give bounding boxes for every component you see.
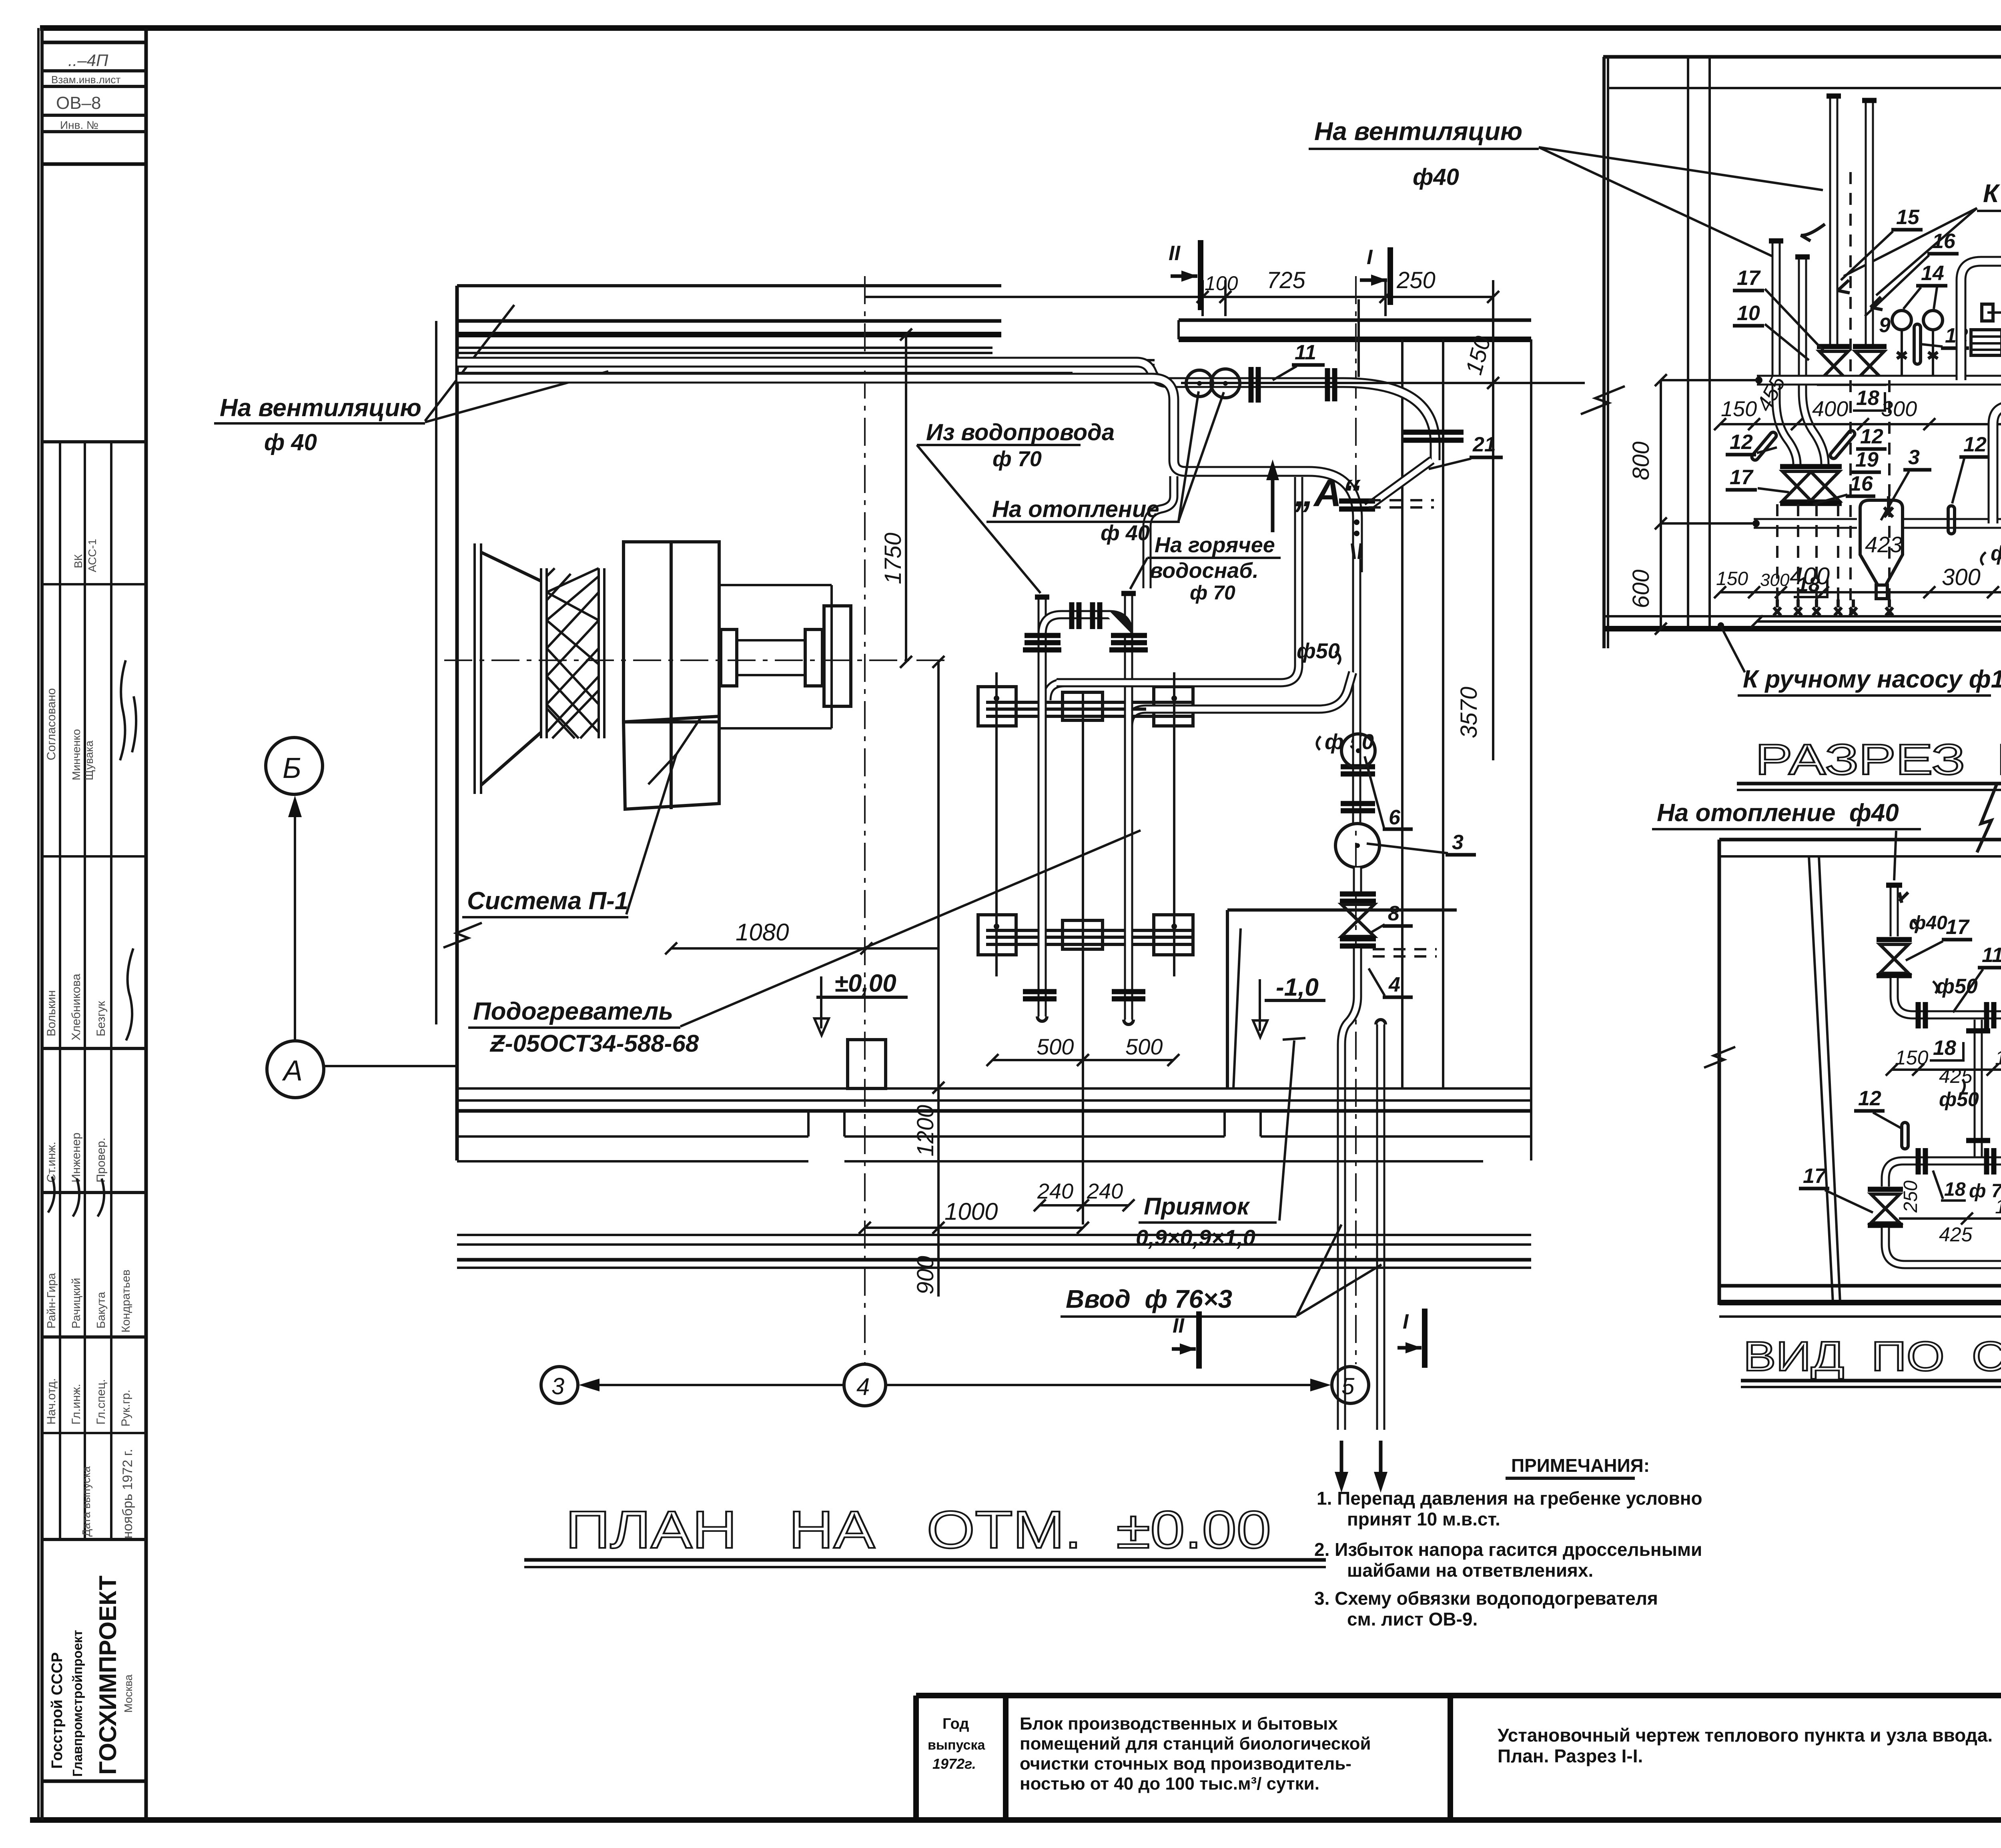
riser between	[1341, 801, 1375, 806]
view A ceiling double line	[1719, 838, 2001, 842]
axis arrow A to B	[294, 800, 296, 1040]
svg-text:ностью от 40 до 100 тыс.м³/ су: ностью от 40 до 100 тыс.м³/ сутки.	[1020, 1774, 1319, 1794]
label A arrow	[1271, 467, 1275, 532]
svg-text:423: 423	[1865, 532, 1902, 557]
pipe elbow bottom	[1885, 1228, 2001, 1265]
left vertical dims 800 600	[1660, 380, 1662, 629]
lower left valves pair	[1780, 464, 1814, 469]
svg-text:Безгук: Безгук	[94, 1001, 108, 1036]
section mark I top	[1387, 247, 1393, 305]
heater axis centerline	[1082, 692, 1084, 1225]
thermometer gauges 14 on upper manifold	[1892, 311, 1911, 330]
dim row 2 view	[1899, 1217, 2001, 1220]
sheet outer left line	[37, 28, 40, 1820]
svg-text:Бакута: Бакута	[95, 1291, 108, 1329]
fan inlet cone	[481, 552, 541, 581]
dim line 100-725-250	[864, 296, 1493, 298]
floor band top lines	[457, 1087, 1531, 1090]
arrows under vvod pipes	[1340, 1441, 1343, 1485]
svg-text:ф 70: ф 70	[992, 447, 1042, 471]
svg-text:12: 12	[1730, 431, 1753, 454]
gauge assembly: line, box, grid box, circle	[1987, 311, 2001, 314]
jumper bridge between pipe tops	[1042, 615, 1129, 634]
svg-text:17: 17	[1730, 466, 1754, 489]
pit priyamok outline	[1227, 908, 1457, 912]
svg-text:ф50: ф50	[1939, 1088, 1979, 1110]
section left outer wall pair	[1602, 57, 1606, 648]
svg-text:Главпромстройпроект: Главпромстройпроект	[70, 1630, 85, 1777]
column axis 5 / pipe axis	[1355, 276, 1357, 1364]
svg-text:4: 4	[1388, 973, 1400, 996]
svg-text:шайбами на ответвлениях.: шайбами на ответвлениях.	[1347, 1560, 1593, 1581]
svg-text:2. Избыток напора гасится дрос: 2. Избыток напора гасится дроссельными	[1314, 1539, 1702, 1560]
svg-text:Блок производственных и бытовы: Блок производственных и бытовых	[1020, 1714, 1338, 1734]
leaders into fan	[648, 754, 676, 784]
floor blocks row	[457, 1135, 808, 1138]
svg-text:Райн-Гира: Райн-Гира	[45, 1273, 58, 1329]
svg-text:4: 4	[856, 1373, 870, 1400]
svg-text:17: 17	[1946, 916, 1970, 939]
dashed centerlines under valves	[1849, 172, 1852, 616]
svg-text:10: 10	[1737, 302, 1760, 325]
dim 500 500	[992, 1059, 1173, 1061]
svg-text:9: 9	[1879, 314, 1891, 337]
svg-text:Согласовано: Согласовано	[45, 688, 58, 760]
svg-text:очистки сточных вод производит: очистки сточных вод производитель-	[1020, 1754, 1351, 1774]
title block dividers	[1003, 1696, 1009, 1820]
label K ruchnomu nasosu	[1718, 622, 1724, 629]
riser D tall	[1865, 99, 1874, 344]
floor lower lines	[457, 1160, 808, 1163]
flex connector frame lines	[540, 568, 542, 738]
axis circle 3	[541, 1367, 578, 1403]
thermo well 12	[1902, 1122, 1908, 1149]
svg-text:150: 150	[1721, 397, 1757, 421]
svg-text:Провер.: Провер.	[94, 1138, 108, 1183]
svg-text:1972г.: 1972г.	[932, 1756, 976, 1772]
wall top-right band	[1179, 319, 1531, 322]
svg-text:240: 240	[1087, 1179, 1123, 1203]
svg-text:5: 5	[1341, 1373, 1355, 1399]
svg-text:150: 150	[1995, 1046, 2001, 1069]
riser flanges below elbow	[1404, 430, 1464, 435]
svg-text:„А“: „А“	[1294, 472, 1361, 515]
vvod pipe R	[1376, 1024, 1385, 1430]
svg-text:18: 18	[1856, 387, 1879, 410]
bridge flange bars	[1069, 602, 1075, 629]
floor line section	[1604, 626, 2001, 631]
svg-text:12: 12	[1858, 1087, 1881, 1110]
svg-text:150: 150	[1995, 1195, 2001, 1218]
svg-text:21: 21	[1472, 433, 1496, 456]
ceiling break squiggle	[1977, 784, 1997, 852]
ceiling line 1	[1603, 55, 2001, 59]
svg-text:Ст.инж.: Ст.инж.	[45, 1142, 58, 1183]
section mark I bottom	[1422, 1309, 1428, 1368]
svg-text:ф 40: ф 40	[1101, 521, 1150, 545]
svg-text:12: 12	[1963, 433, 1987, 456]
top border	[40, 25, 2001, 31]
svg-text:Ƶ-05ОСТ34-588-68: Ƶ-05ОСТ34-588-68	[489, 1030, 699, 1057]
section inner wall pair	[1687, 57, 1689, 626]
axis circle 5	[1332, 1367, 1369, 1403]
svg-text:ноябрь 1972 г.: ноябрь 1972 г.	[120, 1449, 135, 1539]
svg-text:12: 12	[1860, 425, 1883, 448]
motor bracket top line	[719, 584, 832, 586]
svg-text:РАЗРЕЗ I-I: РАЗРЕЗ I-I	[1755, 735, 2001, 784]
svg-text:ф50: ф50	[1991, 542, 2001, 565]
svg-text:Госстрой СССР: Госстрой СССР	[49, 1652, 66, 1769]
dashed branch right	[1369, 499, 1434, 501]
pipe elbow to horizontal 1	[1894, 978, 2001, 1015]
thermo well 12 upper	[1914, 324, 1921, 364]
lower valve	[1868, 1187, 1903, 1192]
wall break mark left	[1581, 386, 1625, 414]
dim row 2 (600 level)	[1720, 591, 2001, 593]
svg-text:425: 425	[1939, 1065, 1973, 1087]
dim 240 240	[1040, 1204, 1129, 1207]
lower loop pipe	[1993, 406, 2001, 523]
flange pair at 3126	[1249, 367, 1254, 403]
flange pair at 3317	[1325, 368, 1330, 401]
svg-text:Москва: Москва	[122, 1674, 134, 1713]
tee down connector	[1974, 1020, 1983, 1157]
thermo well 12 mid	[1948, 506, 1955, 534]
k-arrows into risers	[1838, 280, 1850, 293]
svg-text:На вентиляцию: На вентиляцию	[220, 394, 421, 422]
upper P-loop pipe	[1961, 261, 2001, 380]
svg-text:300: 300	[1881, 397, 1917, 421]
svg-text:3570: 3570	[1456, 687, 1482, 738]
pump circle 2	[1211, 369, 1240, 398]
middle horizontal pipe 2	[1885, 1161, 2001, 1187]
heater support bracket row 1	[978, 687, 1193, 726]
svg-text:ВК: ВК	[72, 554, 84, 568]
pipe flange bars	[1025, 633, 1061, 638]
ceiling line 2	[1607, 87, 2001, 89]
fan centerline	[444, 659, 948, 661]
svg-text:Щувака: Щувака	[83, 740, 95, 780]
svg-text:ф 50: ф 50	[1325, 730, 1374, 754]
svg-text:На отопление: На отопление	[992, 496, 1159, 522]
svg-text:250: 250	[1396, 267, 1436, 293]
svg-text:АСС-1: АСС-1	[86, 539, 98, 572]
svg-text:1. Перепад давления на гребенк: 1. Перепад давления на гребенке условно	[1317, 1488, 1702, 1509]
fan inlet flange double line	[473, 543, 476, 794]
column axis 4	[864, 276, 866, 1364]
svg-text:Взам.инв.лист: Взам.инв.лист	[51, 74, 120, 86]
svg-text:250: 250	[1900, 1181, 1921, 1213]
heater pipe 2	[1124, 595, 1133, 1020]
svg-text:Кондратьев: Кондратьев	[120, 1269, 132, 1333]
svg-text:3. Схему обвязки водоподогрева: 3. Схему обвязки водоподогревателя	[1314, 1588, 1658, 1609]
heater pipe 1	[1038, 599, 1047, 1016]
svg-text:17: 17	[1737, 267, 1761, 290]
dim 3570	[1757, 620, 2001, 623]
break mark on left dim	[1704, 1047, 1735, 1068]
title block outer	[916, 1693, 2001, 1698]
svg-text:ВИД ПО СТРЕЛКЕ„А“: ВИД ПО СТРЕЛКЕ„А“	[1743, 1333, 2001, 1380]
svg-text:150: 150	[1895, 1046, 1929, 1069]
flex connector crosshatch	[547, 568, 599, 738]
svg-text:..–4П: ..–4П	[68, 51, 108, 70]
long riser down to valves	[1352, 559, 1361, 720]
svg-text:Инв. №: Инв. №	[60, 119, 98, 131]
svg-text:На горячее: На горячее	[1155, 533, 1275, 557]
riser B	[1803, 256, 1825, 464]
svg-text:11: 11	[1295, 341, 1316, 364]
svg-text:ГОСХИМПРОЕКТ: ГОСХИМПРОЕКТ	[94, 1575, 121, 1775]
svg-text:ф 70: ф 70	[1190, 581, 1235, 604]
heater pipes redrawn over brackets	[1038, 680, 1047, 976]
svg-text:ф40: ф40	[1413, 164, 1459, 190]
svg-text:ПРИМЕЧАНИЯ:: ПРИМЕЧАНИЯ:	[1511, 1455, 1650, 1476]
right wall verticals	[1401, 339, 1404, 1088]
svg-text:8: 8	[1388, 902, 1399, 925]
svg-text:300: 300	[1942, 564, 1981, 590]
drain row under manifold	[1774, 599, 1893, 615]
flanges on pipe1	[1916, 1002, 1921, 1028]
centerline through circles	[1181, 382, 1583, 384]
svg-text:15: 15	[1896, 206, 1920, 229]
left wall vertical	[1718, 840, 1721, 1305]
svg-text:3: 3	[1452, 831, 1464, 854]
lower manifold	[1754, 518, 1857, 529]
main valve circle upper	[1352, 720, 1361, 824]
svg-text:На вентиляцию: На вентиляцию	[1314, 117, 1522, 146]
svg-text:Рук.гр.: Рук.гр.	[119, 1390, 132, 1427]
svg-text:3: 3	[551, 1373, 564, 1399]
svg-text:-1,0: -1,0	[1276, 974, 1319, 1001]
svg-text:1750: 1750	[880, 533, 906, 584]
pipe B2 down from bundle, branch to heater pipe2	[457, 378, 1357, 572]
svg-text:Год: Год	[942, 1716, 969, 1732]
svg-text:19: 19	[1855, 448, 1879, 471]
svg-text:16: 16	[1850, 472, 1873, 495]
dim 150 vertical right	[1492, 280, 1494, 760]
svg-text:500: 500	[1037, 1034, 1074, 1059]
axis arrows 4->3 and 4->5	[587, 1384, 844, 1386]
svg-text:Ввод ф 76×3: Ввод ф 76×3	[1066, 1285, 1232, 1313]
leader lines to bundle	[425, 305, 514, 421]
valve top	[1877, 937, 1912, 942]
taper from upper riser to lower axis	[1367, 460, 1432, 507]
section mark II top	[1198, 240, 1203, 310]
H2 branch from heater pipe2	[1129, 672, 1353, 726]
svg-text:ф50: ф50	[1297, 639, 1340, 663]
svg-text:Из водопровода: Из водопровода	[926, 419, 1115, 445]
pipe top caps	[1035, 595, 1049, 600]
svg-text:240: 240	[1037, 1179, 1073, 1203]
svg-text:150: 150	[1716, 568, 1748, 589]
svg-text:ПЛАН НА ОТМ. ±0.00: ПЛАН НА ОТМ. ±0.00	[565, 1500, 1271, 1559]
svg-text:3: 3	[1908, 446, 1920, 469]
gate valve bowtie	[1341, 904, 1374, 936]
stamp column left edge	[40, 28, 44, 1820]
signature table horizontal dividers	[42, 440, 146, 443]
extension line from 250 tick	[1357, 299, 1360, 377]
top-left stamp box rows	[42, 41, 146, 44]
shaft plates	[721, 629, 737, 686]
small drain valve 19	[1884, 496, 1893, 517]
fan housing lower rect	[624, 716, 719, 809]
svg-text:помещений для станций биологич: помещений для станций биологической	[1020, 1734, 1371, 1754]
svg-text:1080: 1080	[736, 919, 789, 946]
filter pot 423 lower	[1860, 500, 1903, 585]
top pipe stub	[1890, 884, 1899, 936]
big valve circle	[1335, 824, 1379, 868]
pump circle 1	[1186, 370, 1213, 397]
flanges below big circle	[1353, 868, 1362, 892]
bottom border	[30, 1817, 2001, 1823]
slanted inner wall lines	[1809, 856, 1833, 1303]
svg-text:±0,00: ±0,00	[834, 970, 896, 997]
svg-text:Инженер: Инженер	[70, 1132, 83, 1183]
svg-text:600: 600	[1628, 569, 1654, 608]
dim 1080	[671, 947, 938, 950]
axis circle B	[266, 738, 323, 794]
riser C tall	[1829, 95, 1839, 344]
dashed stub right lower	[1373, 948, 1437, 950]
svg-text:Гл.инж.: Гл.инж.	[70, 1384, 83, 1425]
vent pipe bundle top-left	[457, 347, 992, 349]
svg-text:ОВ–8: ОВ–8	[56, 93, 101, 113]
vertical dim line x2345	[905, 335, 907, 662]
svg-text:II: II	[1169, 242, 1181, 265]
svg-text:425: 425	[1939, 1223, 1973, 1246]
svg-text:6: 6	[1389, 806, 1401, 829]
svg-text:см. лист ОВ-9.: см. лист ОВ-9.	[1347, 1609, 1478, 1630]
svg-text:I: I	[1403, 1310, 1409, 1333]
dim row 1 view	[1892, 1068, 2001, 1071]
axis circle A left	[267, 1041, 324, 1098]
svg-text:900: 900	[912, 1256, 938, 1295]
svg-text:II: II	[1173, 1314, 1185, 1337]
main pipe B1 from bundle with jog to pump circles	[457, 362, 1435, 460]
svg-text:Рачицкий: Рачицкий	[70, 1278, 83, 1329]
svg-text:14: 14	[1921, 262, 1944, 285]
svg-text:План. Разрез I-I.: План. Разрез I-I.	[1498, 1746, 1643, 1766]
upper manifold	[1757, 375, 2001, 386]
svg-text:А: А	[282, 1055, 303, 1087]
svg-text:0,9×0,9×1,0: 0,9×0,9×1,0	[1136, 1225, 1255, 1250]
fan housing rect	[624, 542, 719, 722]
svg-text:К ручному насосу ф15: К ручному насосу ф15	[1743, 665, 2001, 693]
svg-text:16: 16	[1932, 230, 1956, 253]
reducer 2	[1352, 543, 1361, 559]
riser A	[1776, 240, 1797, 464]
left wall verticals	[435, 321, 437, 1024]
svg-text:Система П-1: Система П-1	[467, 887, 628, 915]
valve C (bowtie vertical)	[1817, 344, 1851, 349]
stamp column right edge (main frame left)	[144, 28, 148, 1820]
svg-text:Нач.отд.: Нач.отд.	[45, 1378, 58, 1425]
svg-text:На отопление ф40: На отопление ф40	[1657, 799, 1899, 827]
svg-text:I: I	[1367, 246, 1373, 269]
svg-text:Приямок: Приямок	[1144, 1193, 1250, 1220]
svg-text:725: 725	[1267, 267, 1306, 293]
svg-text:Установочный чертеж теплового: Установочный чертеж теплового пункта и у…	[1498, 1725, 1993, 1746]
foundation band lower	[457, 1234, 1531, 1236]
svg-text:водоснаб.: водоснаб.	[1150, 559, 1259, 583]
svg-text:ф 40: ф 40	[264, 429, 317, 455]
svg-text:К водоподогревателю: К водоподогревателю	[1983, 179, 2001, 208]
flanges at 1246	[1339, 499, 1375, 504]
svg-text:18: 18	[1933, 1036, 1956, 1060]
heater pipe flanges (lower)	[1023, 989, 1057, 994]
section mark II bottom	[1196, 1311, 1202, 1369]
svg-text:500: 500	[1125, 1034, 1163, 1059]
svg-text:выпуска: выпуска	[928, 1738, 985, 1753]
svg-text:1000: 1000	[944, 1198, 998, 1225]
bracket hanger lines	[995, 672, 998, 976]
svg-text:Минченко: Минченко	[70, 729, 82, 780]
svg-text:принят 10 м.в.ст.: принят 10 м.в.ст.	[1347, 1509, 1500, 1529]
valve D	[1853, 344, 1887, 349]
svg-text:100: 100	[1205, 272, 1238, 295]
axis circle 4	[844, 1364, 886, 1406]
svg-text:Подогреватель: Подогреватель	[473, 998, 673, 1025]
vvod pipe L with s-bend	[1341, 948, 1357, 1430]
dim 1000	[865, 1227, 1083, 1229]
dim row 1 (800 level)	[1720, 423, 2001, 425]
heater support bracket row 2	[978, 915, 1193, 955]
small pier on centerline	[848, 1040, 886, 1088]
thermo wells 12 slanted lower-left	[1750, 431, 1778, 461]
svg-text:800: 800	[1628, 441, 1654, 480]
signature table vertical dividers	[59, 442, 61, 1539]
svg-text:Волькин: Волькин	[45, 990, 58, 1036]
svg-text:Гл.спец.: Гл.спец.	[94, 1379, 108, 1425]
svg-text:Б: Б	[283, 752, 301, 784]
svg-text:Дата выпуска: Дата выпуска	[80, 1466, 92, 1537]
svg-text:400: 400	[1812, 397, 1848, 421]
flange under bowtie	[1340, 936, 1376, 942]
svg-text:17: 17	[1803, 1165, 1827, 1188]
svg-text:300: 300	[1760, 570, 1790, 590]
svg-text:Хлебникова: Хлебникова	[70, 974, 83, 1040]
wall top-left band	[457, 319, 1001, 323]
svg-text:18: 18	[1944, 1179, 1966, 1200]
svg-text:11: 11	[1982, 944, 2001, 967]
floor double line	[1719, 1284, 2001, 1288]
H1 branch from heater pipe1	[1047, 477, 1299, 700]
